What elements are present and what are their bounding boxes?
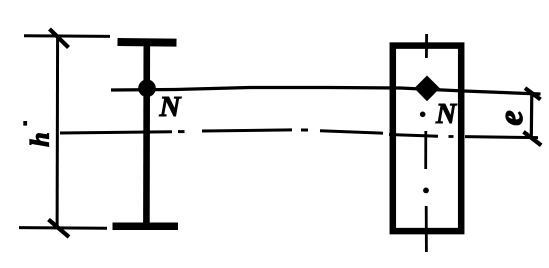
horizontal centerline dash bbox=[60, 132, 172, 133]
horizontal centerline dash bbox=[465, 137, 538, 138]
dimension h' top extension line bbox=[24, 34, 110, 38]
I-beam column bottom flange bbox=[113, 223, 179, 231]
force line N (horizontal through both sections) bbox=[111, 88, 541, 95]
dimension h' bottom extension line bbox=[19, 226, 107, 230]
horizontal centerline dot bbox=[178, 130, 185, 133]
dimension h' bottom tick bbox=[49, 220, 70, 238]
horizontal centerline dash bbox=[389, 135, 438, 137]
vertical centerline dash bbox=[424, 131, 427, 169]
svg-text:N: N bbox=[435, 99, 458, 130]
vertical centerline dot bbox=[420, 112, 426, 118]
dimension h' vertical dimension line bbox=[56, 36, 60, 230]
force point N (left dot) bbox=[138, 80, 156, 98]
dimension e bottom tick bbox=[524, 132, 542, 146]
horizontal centerline dot bbox=[301, 129, 308, 132]
horizontal centerline dash bbox=[202, 130, 292, 131]
I-beam column web bbox=[143, 43, 150, 226]
dimension e vertical dimension line bbox=[530, 92, 534, 138]
vertical centerline dash above bbox=[425, 34, 428, 58]
horizontal centerline dash bbox=[320, 131, 383, 133]
rectangular column section bbox=[393, 46, 461, 232]
vertical centerline dash below bbox=[425, 206, 428, 252]
svg-text:h: h bbox=[26, 132, 55, 146]
dimension h' top tick bbox=[50, 29, 69, 48]
dimension e top tick bbox=[525, 88, 541, 100]
I-beam column top flange bbox=[118, 38, 177, 47]
force point N (right diamond) bbox=[414, 76, 440, 102]
vertical centerline dot bbox=[423, 188, 429, 194]
label h' prime mark bbox=[23, 121, 27, 126]
svg-text:N: N bbox=[159, 91, 182, 123]
horizontal centerline dot bbox=[449, 135, 454, 138]
svg-text:e: e bbox=[493, 110, 530, 125]
